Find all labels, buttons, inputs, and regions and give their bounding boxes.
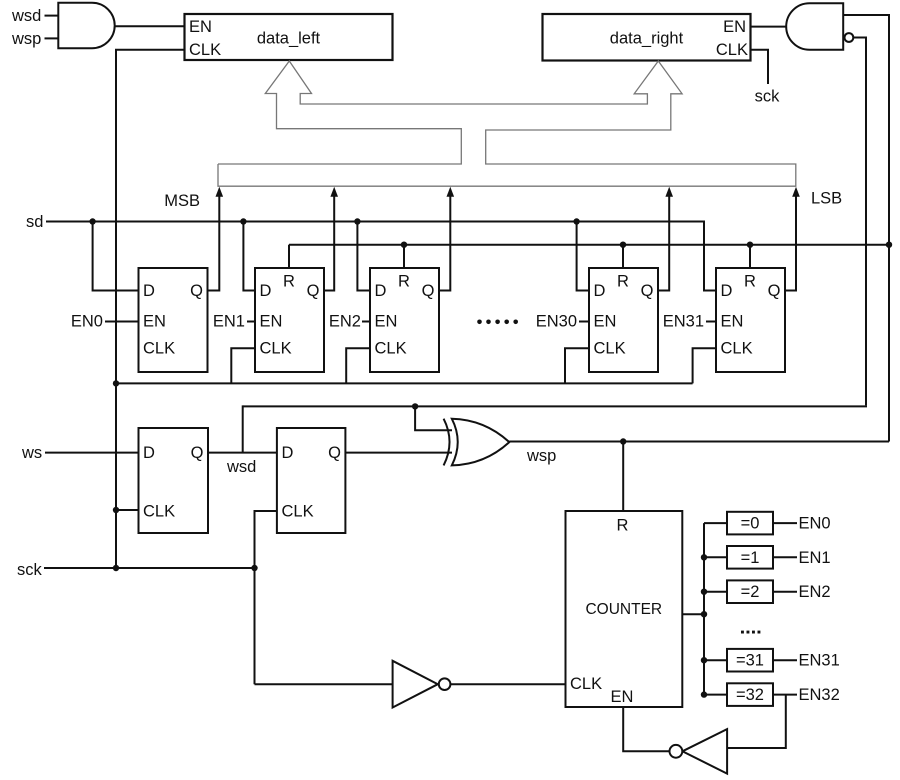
wire FF1 Q output arrow into bus	[324, 187, 338, 291]
svg-text:Q: Q	[768, 282, 781, 300]
svg-text:R: R	[617, 517, 629, 535]
label EN30	[536, 313, 577, 331]
wire clock tap to FF31 CLK	[693, 348, 716, 383]
svg-text:wsd: wsd	[226, 458, 256, 476]
svg-text:D: D	[143, 282, 155, 300]
wire wsd vertical up	[242, 405, 244, 452]
wire FFB Q to XOR lower input	[345, 452, 452, 454]
inverting bubble on U4 output	[439, 678, 451, 690]
svg-text:R: R	[744, 273, 756, 291]
svg-text:CLK: CLK	[189, 41, 221, 59]
wire ws input to FFA D	[45, 452, 139, 454]
wire comparator =31 output	[773, 659, 797, 661]
svg-text:EN: EN	[260, 313, 283, 331]
svg-text:Q: Q	[191, 444, 204, 462]
svg-text:D: D	[143, 444, 155, 462]
svg-text:EN: EN	[723, 18, 746, 36]
wire U2 top input from wsp net	[843, 15, 889, 244]
svg-text:=32: =32	[736, 686, 764, 704]
svg-text:EN: EN	[375, 313, 398, 331]
svg-text:CLK: CLK	[570, 675, 602, 693]
svg-text:LSB: LSB	[811, 190, 842, 208]
label EN2 (comparator output)	[799, 583, 831, 601]
wire FF30 Q output arrow into bus	[659, 187, 674, 291]
wire EN31 stub	[706, 321, 717, 323]
wire sd to FF2 D input	[357, 222, 370, 291]
wire EN2 stub	[362, 321, 371, 323]
ellipsis dots (comparators =3..=30 omitted)	[741, 631, 760, 634]
junction sck at FFB clk vertical	[251, 565, 257, 571]
svg-text:CLK: CLK	[260, 340, 292, 358]
svg-text:EN31: EN31	[799, 652, 840, 670]
label EN2	[329, 313, 361, 331]
svg-text:=2: =2	[741, 583, 760, 601]
wire FF31 Q output arrow into bus	[785, 187, 800, 291]
wire U2 output to data_right EN	[750, 26, 786, 28]
and gate U2 (facing left, one inverted input -> data_right EN)	[786, 3, 843, 50]
svg-text:EN2: EN2	[799, 583, 831, 601]
svg-text:data_left: data_left	[257, 30, 321, 48]
svg-text:CLK: CLK	[716, 41, 748, 59]
junction sd to FF1 D	[240, 218, 246, 224]
wire FFA CLK from sck vertical	[116, 509, 139, 511]
wire wsp corner up right side	[888, 245, 890, 442]
wire input stub to comparator =0	[704, 522, 727, 524]
bus channel with hollow arrows into data_left and data_right	[218, 61, 796, 186]
svg-text:EN: EN	[594, 313, 617, 331]
svg-text:CLK: CLK	[594, 340, 626, 358]
label wsd (net name)	[226, 458, 256, 476]
label EN31	[663, 313, 704, 331]
svg-text:wsd: wsd	[11, 7, 41, 25]
inverting bubble on U2 lower input	[845, 33, 854, 42]
svg-text:COUNTER: COUNTER	[585, 601, 662, 618]
svg-text:sd: sd	[26, 213, 43, 231]
svg-text:CLK: CLK	[282, 503, 314, 521]
wire wsd input stub to U1	[45, 15, 59, 17]
svg-text:ws: ws	[21, 444, 42, 462]
svg-text:D: D	[721, 282, 733, 300]
label sck (serial clock input)	[17, 561, 43, 579]
label wsp (U1 input)	[11, 30, 41, 48]
wire clock tap to FF2 CLK	[346, 348, 370, 383]
wire sd horizontal line	[46, 222, 716, 291]
svg-text:EN1: EN1	[213, 313, 245, 331]
label sd (serial data input)	[26, 213, 43, 231]
wire comparator =0 output	[773, 522, 797, 524]
wire clock tap to FF1 CLK	[231, 348, 255, 383]
wire input stub to comparator =1	[704, 556, 727, 558]
wire FFA Q to FFB D (wsd net)	[208, 452, 277, 454]
svg-text:CLK: CLK	[143, 340, 175, 358]
junction distribution at =31	[701, 657, 707, 663]
wire XOR output wsp	[509, 441, 889, 443]
svg-text:R: R	[283, 273, 295, 291]
flip-flop FF2 (D flip-flop with enable)	[370, 268, 439, 372]
junction distribution at =32	[701, 691, 707, 697]
wire comparator distribution vertical	[703, 523, 705, 695]
svg-text:EN: EN	[189, 18, 212, 36]
counter U5 (bit counter)	[566, 511, 683, 707]
junction clock line at left vertical	[113, 380, 119, 386]
and gate U1 (wsd AND wsp -> data_left EN)	[58, 3, 114, 48]
svg-text:D: D	[375, 282, 387, 300]
wire FF2 Q output arrow into bus	[439, 187, 454, 291]
label sck (data_right clock)	[755, 88, 781, 106]
svg-text:EN31: EN31	[663, 313, 704, 331]
wire sck horizontal	[44, 567, 255, 569]
flip-flop FF31 (D flip-flop with enable)	[716, 268, 785, 372]
junction distribution at =2	[701, 589, 707, 595]
svg-text:EN2: EN2	[329, 313, 361, 331]
wire R net to FF2 R pin	[403, 245, 405, 268]
wire EN0 stub	[105, 321, 139, 323]
wire U1 output to data_left EN	[114, 25, 185, 27]
svg-text:=0: =0	[741, 515, 760, 533]
label EN32 (comparator output)	[799, 686, 840, 704]
wire FF0 Q output arrow into bus	[208, 187, 224, 291]
label EN31 (comparator output)	[799, 652, 840, 670]
wire FFB CLK tap	[255, 511, 278, 684]
ellipsis dots (FF3..FF29 omitted)	[477, 320, 518, 325]
wire wsd drop to XOR upper input	[415, 406, 452, 430]
flip-flop FF1 (D flip-flop with enable)	[255, 268, 324, 372]
wire clock tap to FF30 CLK	[565, 348, 589, 383]
svg-text:sck: sck	[17, 561, 43, 579]
register data_left	[185, 14, 393, 60]
label wsp (XOR output net)	[526, 447, 556, 465]
svg-text:EN: EN	[611, 688, 634, 706]
wire comparator =1 output	[773, 556, 797, 558]
svg-text:EN30: EN30	[536, 313, 577, 331]
flip-flop FF0 (D flip-flop with enable)	[139, 268, 208, 372]
wire wsd horizontal to right	[243, 405, 867, 407]
svg-text:Q: Q	[422, 282, 435, 300]
junction R net at FF31	[747, 242, 753, 248]
junction sck vertical at FFA CLK	[113, 507, 119, 513]
wire EN1 stub	[247, 321, 256, 323]
junction counter output at distribution	[701, 611, 707, 617]
wire input stub to comparator =31	[704, 659, 727, 661]
svg-text:EN32: EN32	[799, 686, 840, 704]
comparator =0	[727, 512, 773, 535]
wire U4 output to COUNTER CLK	[450, 683, 565, 685]
svg-text:EN0: EN0	[799, 515, 831, 533]
svg-text:CLK: CLK	[143, 503, 175, 521]
svg-text:sck: sck	[755, 88, 781, 106]
junction wsp at counter R drop	[620, 438, 626, 444]
label EN0 (comparator output)	[799, 515, 831, 533]
wire sd to FF0 D input	[93, 222, 139, 291]
wire data_left CLK from sck vertical	[116, 50, 185, 568]
svg-text:=31: =31	[736, 652, 764, 670]
comparator =31	[727, 649, 773, 672]
wire comparator =32 output	[773, 694, 797, 696]
wire wsp input stub to U1	[45, 37, 59, 39]
svg-text:EN: EN	[143, 313, 166, 331]
wire R net to FF31 R pin	[749, 245, 751, 268]
wire EN32 branch down to U6 input	[727, 695, 786, 748]
svg-text:R: R	[398, 273, 410, 291]
wire sck down to inverter input	[255, 683, 393, 685]
wire sck stub to data_right CLK	[750, 50, 768, 84]
label EN1 (comparator output)	[799, 549, 831, 567]
svg-text:data_right: data_right	[610, 30, 684, 48]
wire sd to FF30 D input	[577, 222, 589, 291]
comparator =2	[727, 580, 773, 603]
svg-text:R: R	[617, 273, 629, 291]
comparator =32	[727, 683, 773, 706]
svg-text:EN0: EN0	[71, 313, 103, 331]
junction sd to FF2 D	[354, 218, 360, 224]
svg-text:CLK: CLK	[375, 340, 407, 358]
flip-flop FF30 (D flip-flop with enable)	[589, 268, 658, 372]
svg-text:EN1: EN1	[799, 549, 831, 567]
svg-text:wsp: wsp	[11, 30, 41, 48]
junction R net joins wsp vertical	[886, 242, 892, 248]
wire comparator =2 output	[773, 591, 797, 593]
xor gate U3 (wsd XOR wsd_delayed -> wsp)	[444, 419, 510, 466]
svg-text:Q: Q	[190, 282, 203, 300]
wire input stub to comparator =32	[704, 694, 727, 696]
wire EN30 stub	[579, 321, 590, 323]
wire U2 inverted input from wsd net	[853, 38, 866, 406]
inverter U6 (EN32 inverted -> counter EN)	[682, 729, 727, 774]
svg-text:=1: =1	[741, 549, 760, 567]
wire sd to FF1 D input	[243, 222, 255, 291]
flip-flop FFB (ws synchronizer stage 2)	[277, 428, 346, 533]
svg-text:CLK: CLK	[721, 340, 753, 358]
label LSB	[811, 190, 842, 208]
svg-text:EN: EN	[721, 313, 744, 331]
svg-text:Q: Q	[328, 444, 341, 462]
wire R net horizontal line	[289, 244, 889, 246]
wire input stub to comparator =2	[704, 591, 727, 593]
label wsd (U1 input)	[11, 7, 41, 25]
junction sck at data_left clk vertical	[113, 565, 119, 571]
wire wsp to COUNTER R	[622, 442, 624, 512]
wire R net to FF1 R pin	[288, 245, 290, 268]
svg-text:D: D	[260, 282, 272, 300]
label EN0	[71, 313, 103, 331]
junction R net at FF30	[620, 242, 626, 248]
wire clock distribution line under shift FFs	[116, 382, 693, 384]
wire COUNTER output bus	[682, 613, 704, 615]
svg-text:D: D	[282, 444, 294, 462]
label MSB	[164, 192, 200, 210]
svg-text:Q: Q	[641, 282, 654, 300]
register data_right	[543, 14, 751, 61]
comparator =1	[727, 546, 773, 569]
wire R net to FF30 R pin	[622, 245, 624, 268]
junction R net at FF2	[401, 242, 407, 248]
inverter U4 (sck inverted -> counter CLK)	[393, 661, 438, 708]
wire U6 output to COUNTER EN	[623, 707, 669, 751]
svg-text:D: D	[594, 282, 606, 300]
svg-text:wsp: wsp	[526, 447, 556, 465]
svg-text:Q: Q	[307, 282, 320, 300]
label ws (word select input)	[21, 444, 42, 462]
inverting bubble on U6 output	[670, 745, 683, 758]
junction wsd at XOR input drop	[412, 403, 418, 409]
junction distribution at =1	[701, 554, 707, 560]
label EN1	[213, 313, 245, 331]
svg-text:MSB: MSB	[164, 192, 200, 210]
junction sd to FF0 D	[89, 218, 95, 224]
junction sd to FF30 D	[573, 218, 579, 224]
flip-flop FFA (ws synchronizer stage 1)	[139, 428, 209, 533]
